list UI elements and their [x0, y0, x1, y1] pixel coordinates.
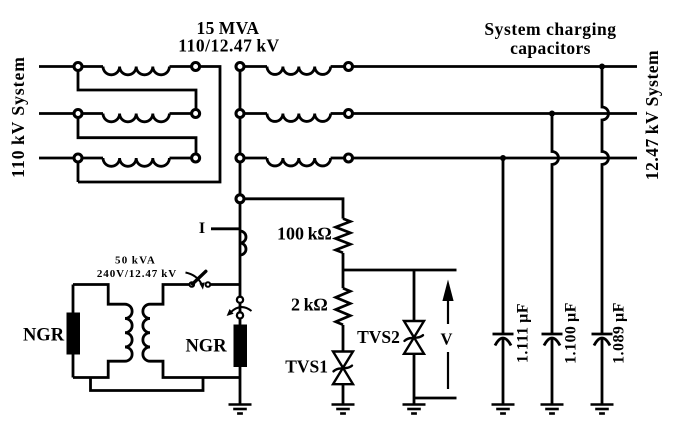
wire phase C input stub — [39, 157, 74, 160]
transformer T1 primary winding C — [82, 157, 103, 160]
svg-text:50 kVA: 50 kVA — [115, 255, 156, 267]
svg-text:2 kΩ: 2 kΩ — [291, 295, 328, 315]
wire delta link C-left down, bottom, up to A-right — [77, 162, 80, 182]
wire TVS2 to ground — [413, 354, 416, 404]
wire delta link B-left down to C-right — [78, 118, 196, 155]
svg-text:TVS2: TVS2 — [357, 327, 400, 347]
terminal circle secondary winding a right — [345, 63, 353, 71]
wire bus through drawout — [239, 297, 242, 325]
svg-text:100 kΩ: 100 kΩ — [277, 224, 332, 244]
svg-text:V: V — [441, 330, 453, 349]
capacitor C3 1.089uF — [592, 334, 613, 404]
transformer T1 primary winding B — [82, 112, 103, 115]
resistor 2k zigzag — [336, 288, 351, 325]
ground for NGR — [229, 405, 252, 414]
wire right loop bottom to bus — [150, 361, 240, 377]
terminal circle secondary winding b right — [345, 110, 353, 118]
svg-text:110 kV System: 110 kV System — [8, 56, 28, 178]
wire V bottom reference tick — [414, 397, 457, 400]
svg-text:110/12.47 kV: 110/12.47 kV — [178, 36, 279, 56]
svg-text:12.47 kV System: 12.47 kV System — [642, 50, 662, 180]
junction dot phase b tap — [549, 111, 555, 117]
wire phase B input stub — [39, 112, 74, 115]
terminal circle primary B right — [192, 110, 200, 118]
current sensor coil on bus — [240, 231, 246, 255]
ground for C3 — [591, 405, 614, 414]
svg-text:240V/12.47 kV: 240V/12.47 kV — [97, 268, 177, 280]
drawout connector circle lower — [237, 312, 243, 318]
transformer T2 12.47kV winding (right, bumps left) — [143, 304, 150, 361]
wire junction to V tap — [343, 269, 457, 272]
terminal circle secondary bus a — [236, 63, 244, 71]
wire left loop top — [73, 285, 125, 305]
wire NGR to ground — [239, 367, 242, 404]
wire I pointer — [211, 227, 240, 230]
wire left loop bottom — [73, 361, 125, 377]
wire neutral to 100k resistor — [244, 199, 343, 219]
terminal circle secondary bus c — [236, 154, 244, 162]
wire junction down to TVS2 — [413, 270, 416, 321]
resistor NGR left (block) — [67, 313, 81, 355]
terminal circle transformer neutral — [236, 195, 244, 203]
drawout motion arc with arrow — [231, 307, 252, 312]
svg-text:1.100 µF: 1.100 µF — [563, 302, 580, 364]
svg-text:capacitors: capacitors — [510, 38, 591, 58]
ground for C2 — [541, 405, 564, 414]
diode TVS2 (bidirectional) — [404, 321, 424, 354]
wire TVS1 to ground — [342, 384, 345, 403]
terminal circle primary A right — [192, 63, 200, 71]
transformer T1 secondary winding c — [240, 157, 267, 160]
resistor NGR right (block) — [234, 325, 248, 368]
V measurement arrow — [442, 280, 453, 302]
ground for C1 — [492, 405, 515, 414]
wire capacitor column 1 (phase c) — [502, 158, 505, 334]
ground for TVS2 — [403, 405, 426, 414]
terminal circle primary B left — [74, 110, 82, 118]
wire resistor junction — [342, 253, 345, 288]
svg-text:TVS1: TVS1 — [285, 357, 328, 377]
switch motion arc — [186, 273, 202, 284]
resistor 100k zigzag — [336, 219, 351, 253]
transformer T1 secondary winding b — [240, 112, 267, 115]
wire 2k to TVS1 — [342, 325, 345, 352]
capacitor C2 1.100uF — [542, 334, 563, 404]
svg-text:NGR: NGR — [23, 326, 65, 346]
svg-text:NGR: NGR — [185, 337, 227, 357]
wire capacitor column 3 (phase a) with hops over phases b and c — [602, 67, 609, 335]
svg-text:1.111 µF: 1.111 µF — [515, 303, 532, 363]
terminal circle primary C left — [74, 154, 82, 162]
svg-text:I: I — [199, 220, 205, 237]
wire secondary neutral bus — [239, 67, 242, 298]
terminal circle secondary winding c right — [345, 154, 353, 162]
ground for TVS1 — [332, 405, 355, 414]
terminal circle secondary bus b — [236, 110, 244, 118]
wire phase A input stub — [39, 65, 74, 68]
switch S1 — [186, 271, 211, 289]
svg-text:1.089 µF: 1.089 µF — [611, 302, 628, 364]
svg-text:System charging: System charging — [484, 19, 616, 39]
wire U link between loops — [91, 378, 204, 391]
transformer T2 240V winding (left, bumps right) — [125, 304, 132, 361]
transformer T1 secondary winding a — [240, 65, 267, 68]
capacitor C1 1.111uF — [493, 334, 514, 404]
wire 12.47kV feeder phase a — [353, 65, 638, 68]
diode TVS1 (bidirectional) — [333, 352, 353, 385]
wire capacitor column 2 (phase b) with hop over phase c — [552, 114, 559, 335]
wire switch to bus — [210, 283, 240, 286]
junction dot phase c tap — [500, 155, 506, 161]
wire NGR-left branch — [72, 285, 75, 378]
wire delta link A-left down to B-right — [78, 70, 196, 110]
wire 12.47kV feeder phase b — [353, 112, 638, 115]
terminal circle primary A left — [74, 63, 82, 71]
drawout connector circle upper — [237, 297, 243, 303]
switch blade — [193, 271, 206, 284]
wire 12.47kV feeder phase c — [353, 157, 638, 160]
wire right loop top to switch — [150, 285, 190, 305]
transformer T1 primary winding A — [82, 65, 103, 68]
terminal circle primary C right — [192, 154, 200, 162]
junction dot phase a tap — [599, 64, 605, 70]
